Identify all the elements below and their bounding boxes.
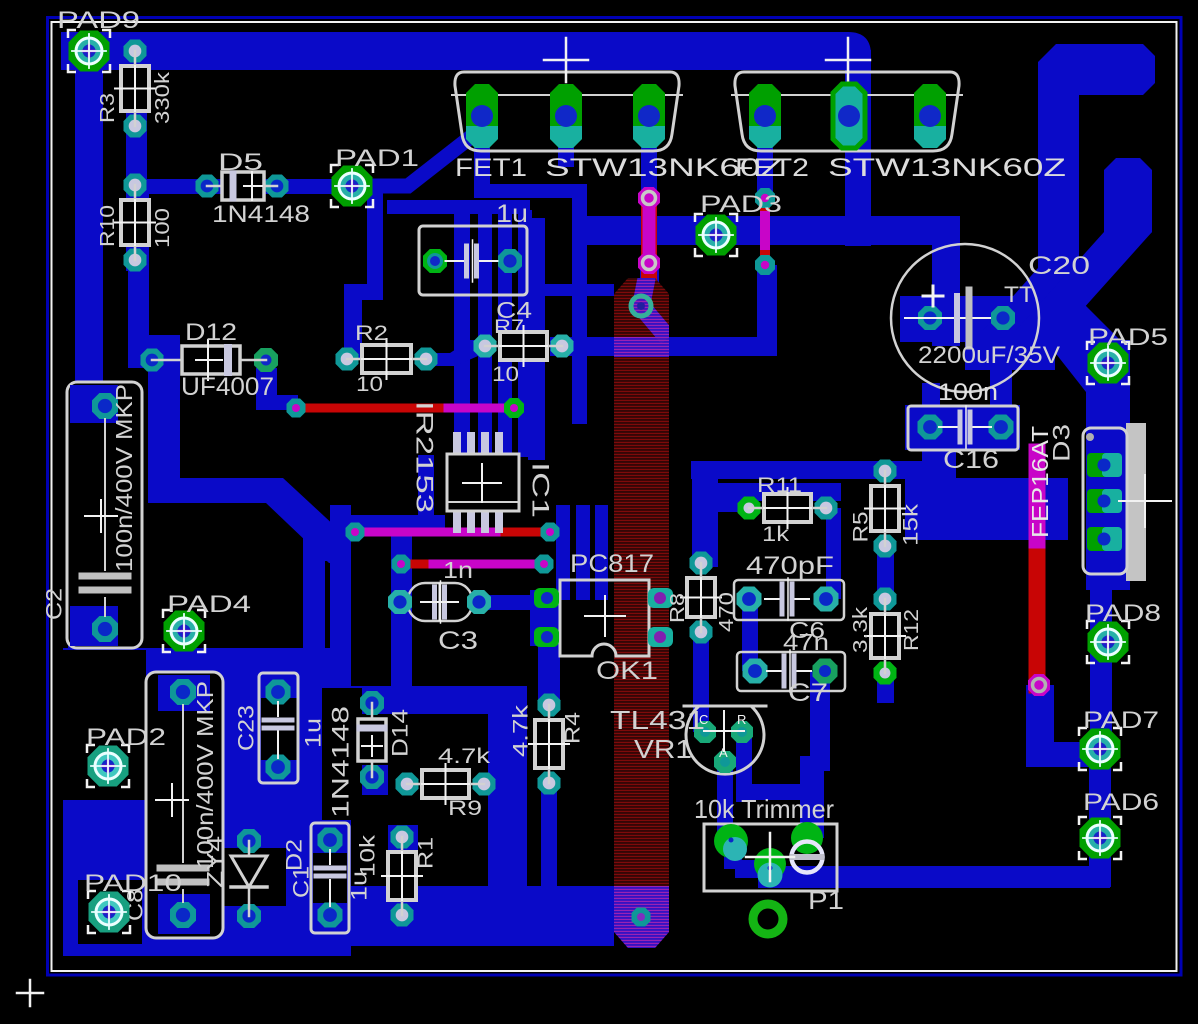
label PAD7 (1083, 707, 1159, 734)
svg-text:P1: P1 (808, 887, 844, 915)
C20 TT mark (1004, 282, 1034, 307)
capacitor C2 outline (67, 382, 142, 648)
pad PAD5 (1087, 342, 1129, 384)
magenta overlap FET2 gate (760, 216, 770, 245)
label 4.7k R9 (438, 745, 491, 768)
wire IC1 bottom strips (556, 505, 570, 600)
resistor R9 (396, 764, 496, 804)
pad PAD10 (88, 891, 130, 933)
wire FET1 L (474, 184, 586, 198)
wire C16 bg (905, 405, 1020, 450)
svg-text:1N4148: 1N4148 (212, 201, 310, 228)
svg-text:PAD5: PAD5 (1088, 324, 1168, 351)
via FET2 b (755, 255, 775, 275)
wire to screw pad (800, 756, 824, 838)
svg-text:FET2: FET2 (735, 154, 809, 182)
svg-text:C2: C2 (42, 588, 67, 620)
svg-text:C7: C7 (788, 679, 828, 707)
svg-text:1n: 1n (443, 557, 473, 583)
svg-text:R5: R5 (850, 512, 873, 543)
label PAD5 (1088, 324, 1168, 351)
svg-text:10: 10 (356, 373, 383, 396)
wire PAD7-PAD6 (1089, 749, 1111, 887)
label R12 (901, 609, 923, 651)
label PAD4 (167, 591, 251, 618)
wire OK1 left blob (530, 590, 560, 646)
resistor R5 (865, 460, 905, 558)
red trace FEP16AT (1029, 452, 1046, 685)
svg-text:3.3k: 3.3k (850, 606, 872, 653)
label C8 value (192, 681, 218, 869)
wire long band R5 (691, 461, 956, 479)
label C6 (789, 617, 825, 643)
wire trimmer bottom stub (758, 866, 822, 888)
C23 pads (266, 680, 291, 780)
pad PAD7 (1079, 728, 1121, 770)
label 1u top (496, 200, 528, 228)
pad PAD2 (87, 745, 129, 787)
FET1 crosshair (544, 38, 588, 82)
label D3 (1049, 424, 1076, 462)
label PAD2 (86, 724, 166, 751)
wire D12 right elbow (256, 368, 298, 410)
wire top-right C vertical (1038, 44, 1079, 310)
wire R10 column lower (148, 335, 180, 503)
svg-text:STW13NK60Z: STW13NK60Z (828, 154, 1066, 182)
svg-text:TL431: TL431 (610, 705, 705, 735)
resistor R12 (865, 588, 905, 685)
wire C2 bottom blob (68, 608, 118, 652)
wire PAD4 drop (174, 631, 194, 661)
wire C3 left drop (391, 515, 412, 707)
label 1u C1 (347, 871, 372, 901)
svg-text:10k Trimmer: 10k Trimmer (694, 794, 834, 824)
wire diagonal to center (266, 478, 351, 563)
origin marker (17, 980, 43, 1006)
svg-text:100n: 100n (938, 379, 998, 406)
svg-text:R1: R1 (415, 837, 438, 869)
wire R4 bottom drop (541, 783, 557, 888)
wire stub via263 to hatch (640, 263, 659, 283)
label 15k (900, 503, 923, 546)
via row2 left (346, 523, 365, 542)
svg-text:47n: 47n (783, 629, 829, 655)
label R10 (97, 205, 119, 247)
label 10k R1 (357, 834, 380, 877)
svg-text:D12: D12 (185, 319, 237, 346)
svg-text:4.7k: 4.7k (438, 745, 491, 768)
capacitor 1u symbol (446, 240, 498, 282)
label FET2 (735, 154, 809, 182)
wire left mid band v (303, 523, 325, 655)
svg-text:R10: R10 (97, 205, 119, 247)
label R3 (97, 93, 119, 123)
C23 symbol (264, 702, 292, 758)
red trace IC1 row2 (355, 528, 550, 537)
label 330k (152, 71, 174, 124)
pour cutout R1 body (389, 852, 417, 901)
capacitor C20 pads (918, 306, 1015, 330)
label R11 (757, 474, 802, 497)
svg-text:PAD8: PAD8 (1085, 600, 1161, 627)
svg-text:C16: C16 (943, 446, 999, 474)
svg-text:UF4007: UF4007 (181, 373, 274, 401)
wire PAD3 band (587, 216, 955, 245)
wire IC1 bottom strip2 (576, 505, 590, 600)
VR1 pin letters (699, 712, 746, 760)
via row3 left (392, 555, 411, 574)
svg-text:R9: R9 (448, 797, 482, 820)
wire diagB to PAD5 col (1042, 298, 1130, 392)
D3 pads (1087, 453, 1122, 551)
wire OK1 lower band (538, 628, 560, 708)
via hatch bottom (632, 908, 651, 927)
label FET1 (455, 154, 527, 182)
pour cutout C23 body (261, 698, 297, 760)
C2 pads (92, 393, 118, 642)
C8 symbol (156, 705, 206, 902)
svg-text:470pF: 470pF (746, 552, 834, 580)
wire PAD8-PAD7 column (1090, 590, 1112, 750)
capacitor C1 outline (311, 823, 349, 933)
svg-text:IC1: IC1 (527, 462, 554, 518)
wire C20 entry (900, 296, 1020, 342)
label 3.3k (850, 606, 872, 653)
wire top-right C horizontal (1056, 44, 1155, 95)
FET2 pad 2 (833, 84, 865, 148)
wire R5-R12 link (877, 546, 894, 599)
IC IC1 IR2153 (447, 432, 519, 533)
pour center drop (488, 686, 527, 886)
wire R1 blob bottom (388, 898, 418, 932)
capacitor C20 outline (891, 244, 1039, 392)
svg-text:1u: 1u (496, 200, 528, 228)
wire TL431 A drop (717, 760, 733, 841)
svg-text:C20: C20 (1028, 252, 1090, 280)
wire FET1 pad3 stub (641, 112, 657, 198)
magenta overlap net1 (448, 404, 514, 413)
label 10k Trimmer (694, 794, 834, 824)
wire 470pF-C7 (742, 599, 758, 671)
label OK1 (596, 657, 658, 685)
capacitor C16 symbol (939, 406, 991, 448)
label 100n C16 (938, 379, 998, 406)
label C1 (289, 866, 314, 898)
svg-text:R12: R12 (901, 609, 923, 651)
wire R11 link (709, 490, 749, 512)
wire R11r-470pF (826, 508, 841, 599)
svg-text:PAD9: PAD9 (57, 7, 140, 34)
label R8 (667, 593, 689, 623)
wire IC1 left col (418, 455, 434, 535)
via hatch top (631, 296, 651, 316)
label C2 (42, 588, 67, 620)
wire drop behind FET2 pad2 (845, 50, 871, 246)
svg-text:A: A (719, 745, 728, 760)
label 10 R7 (492, 363, 519, 386)
svg-text:PAD2: PAD2 (86, 724, 166, 751)
wire C3-OK1 band (479, 595, 549, 610)
wire R8-TL431 (693, 632, 709, 732)
connector FET1 outline (452, 72, 682, 151)
wire strip s4 (518, 210, 532, 457)
wire bottom right band (800, 866, 1110, 888)
svg-text:R2: R2 (355, 322, 388, 345)
capacitor C16 pads (918, 415, 1014, 440)
label C20 (1028, 252, 1090, 280)
svg-text:C3: C3 (438, 627, 478, 655)
pour cutout D2 (222, 848, 286, 906)
wire via1039 down (1026, 685, 1054, 763)
C2 pad blobs (70, 385, 118, 646)
label C23 (234, 705, 259, 751)
svg-text:R3: R3 (97, 93, 119, 123)
wire strip s3 (498, 214, 512, 457)
via net1 left (287, 399, 306, 418)
label 10 R2 (356, 373, 383, 396)
pad PAD3 (695, 214, 737, 256)
wire center column (330, 505, 351, 668)
wire FET2 pad1 stub (757, 112, 773, 197)
svg-text:ZY4: ZY4 (203, 836, 228, 888)
wire R11 band (709, 483, 841, 501)
wire R1 blob top (388, 825, 418, 855)
wire D12 left link (128, 352, 156, 368)
label D2 (282, 839, 307, 871)
label PAD6 (1083, 789, 1159, 816)
red trace FET1 gate (641, 198, 657, 278)
label 47n (783, 629, 829, 655)
wire R3-R10 link (126, 51, 147, 271)
label 4.7k R4 (510, 704, 533, 757)
wire R7 right band (550, 337, 777, 356)
label PC817 (570, 550, 654, 578)
label C8 (123, 889, 148, 921)
label PAD1 (335, 145, 419, 172)
restrict hatch column (600, 266, 680, 960)
resistor R8 (681, 552, 721, 644)
pour cutout D14 body (355, 718, 387, 762)
label TL431 (610, 705, 705, 735)
label R7 (494, 317, 524, 338)
svg-text:VR1: VR1 (634, 734, 692, 764)
via net1 right (504, 398, 524, 418)
svg-text:R4: R4 (562, 712, 585, 744)
wire FET1 col down (572, 184, 587, 424)
P1 cross (746, 833, 794, 881)
label C7 (788, 679, 828, 707)
svg-text:R7: R7 (494, 317, 524, 338)
FET2 pad 3 (914, 84, 946, 148)
label PAD3 (700, 191, 782, 218)
pour cutout C1 body (313, 853, 347, 903)
resistor R4 (529, 694, 569, 795)
label 470 R8 (716, 592, 738, 632)
label D5 (218, 149, 263, 176)
label ZY4 (203, 836, 228, 888)
pad PAD1 (331, 165, 373, 207)
svg-text:100: 100 (152, 208, 174, 248)
svg-text:4.7k: 4.7k (510, 704, 533, 757)
svg-text:R: R (737, 712, 746, 727)
C8 pad blobs (158, 675, 210, 934)
wire C7 drop (810, 671, 830, 771)
wire strip s1 (454, 207, 470, 457)
label STW13NK60Z FET2 (828, 154, 1066, 182)
FET2 pad 1 (749, 84, 781, 148)
wire PAD9 column (75, 40, 103, 660)
pad PAD6 (1079, 817, 1121, 859)
C20 plus mark (923, 286, 943, 306)
wire top band corner (840, 32, 871, 70)
P1 screw (792, 842, 823, 873)
wire PAD5 column (1086, 340, 1130, 590)
svg-text:10k: 10k (357, 834, 380, 877)
svg-text:PC817: PC817 (570, 550, 654, 578)
wire R2-R7 link (426, 340, 485, 366)
diode D3 package (1083, 423, 1146, 581)
pour cutout above PAD2 (62, 650, 146, 800)
svg-text:FEP16AT: FEP16AT (1027, 426, 1053, 538)
label 2200uF/35V (918, 342, 1060, 369)
svg-text:D14: D14 (388, 709, 413, 757)
label VR1 (634, 734, 692, 764)
OK1 pads (534, 588, 673, 647)
FET1 pad 2 (550, 84, 582, 148)
wire FET2 gate L (757, 265, 777, 348)
red trace IC1 row3 (401, 560, 544, 569)
svg-text:FET1: FET1 (455, 154, 527, 182)
wire C20 blob (965, 330, 1055, 370)
VR1 pads (694, 721, 753, 773)
svg-text:IR2153: IR2153 (411, 401, 438, 513)
diode D12 (141, 340, 279, 380)
C2 symbol (82, 419, 128, 616)
resistor R11 (738, 488, 838, 528)
capacitor C8 outline (146, 672, 223, 938)
via FET1 a (638, 187, 660, 209)
label C4 (496, 297, 532, 323)
svg-text:1k: 1k (762, 523, 790, 546)
via row3 right (535, 555, 554, 574)
svg-text:C23: C23 (234, 705, 259, 751)
capacitor C23 outline (259, 673, 298, 783)
wire TL431 R band (736, 784, 816, 800)
D3 cross (1119, 475, 1171, 527)
wire to PAD7 (1026, 742, 1100, 767)
capacitor 470pF (734, 578, 844, 620)
connector FET2 outline (732, 72, 962, 151)
label D12 (185, 319, 237, 346)
wire corner to diagonal (148, 478, 282, 503)
svg-text:330k: 330k (152, 71, 174, 124)
wire right short band (1104, 158, 1152, 244)
capacitor C16 box (908, 406, 1018, 450)
wire R10 down column (128, 185, 149, 365)
wire strip s2 (478, 214, 492, 457)
wire R12 tail (877, 673, 894, 703)
svg-text:PAD7: PAD7 (1083, 707, 1159, 734)
resistor R3 (115, 40, 155, 138)
P1 pads (714, 822, 823, 888)
pour bottom left (63, 648, 351, 956)
label R2 (355, 322, 388, 345)
wire C3 h-band (330, 515, 445, 535)
wire R8 col (692, 461, 718, 567)
wire 1u top band (387, 200, 530, 214)
label IC1 (527, 462, 554, 518)
VR1 cross (704, 711, 744, 751)
diode D5 (196, 172, 289, 200)
wire D5 row (135, 179, 352, 194)
resistor R1 (382, 826, 422, 927)
pour bottom band (351, 886, 614, 946)
svg-text:PAD6: PAD6 (1083, 789, 1159, 816)
regulator VR1 TL431 outline (684, 706, 766, 774)
svg-text:100n/400V MKP: 100n/400V MKP (111, 384, 137, 572)
wire band to C1 col (927, 420, 956, 479)
svg-text:R11: R11 (757, 474, 802, 497)
FET2 crosshair (826, 38, 870, 82)
wire top band (61, 32, 848, 70)
capacitor 1u box (419, 226, 527, 295)
wire PAD1 to FET1 diagonal (352, 136, 472, 186)
wire IC1 bottom strip3 (595, 505, 608, 600)
FET1 pad 1 (466, 84, 498, 148)
wire R2 elbow h (344, 284, 383, 300)
optocoupler OK1 outline (560, 580, 649, 656)
svg-text:2200uF/35V: 2200uF/35V (918, 342, 1060, 369)
resistor R2 (336, 339, 438, 379)
red trace FET2 gate (760, 198, 770, 265)
magenta overlap FEP16AT (1029, 452, 1046, 540)
label R1 (415, 837, 438, 869)
label P1 (808, 887, 844, 915)
wire mid band (540, 284, 614, 296)
wire TL431 R drop (736, 732, 752, 802)
label R5 (850, 512, 873, 543)
label D14 (388, 709, 413, 757)
pour cutout around PAD2 (62, 734, 146, 800)
label 1N4148 D5 (212, 201, 310, 228)
via row2 right (541, 523, 560, 542)
wire D14 blob (358, 765, 388, 795)
label PAD9 (57, 7, 140, 34)
pad PAD4 (163, 610, 205, 652)
wire R3 column (126, 40, 147, 126)
svg-text:R8: R8 (667, 593, 689, 623)
svg-text:PAD3: PAD3 (700, 191, 782, 218)
via FEP16AT (1028, 674, 1050, 696)
label 1k (762, 523, 790, 546)
label C2 value (111, 384, 137, 572)
capacitor C20 symbol (905, 290, 990, 346)
pad PAD9 (68, 30, 110, 72)
pour cutout right of C23 (322, 688, 362, 820)
C8 pads (170, 679, 196, 928)
pad PAD8 (1087, 621, 1129, 663)
capacitor C3 (388, 581, 491, 623)
label 1u C23 (301, 718, 326, 748)
red trace D12-IC1 (net1) (296, 404, 514, 413)
wire C2 top blob (68, 385, 118, 425)
wire left mid band h (303, 536, 351, 561)
pour cutout around PAD10 (78, 880, 142, 944)
wire C20 right pad down (990, 330, 1012, 430)
svg-text:OK1: OK1 (596, 657, 658, 685)
svg-text:D5: D5 (218, 149, 263, 176)
diode D2 (231, 829, 267, 928)
